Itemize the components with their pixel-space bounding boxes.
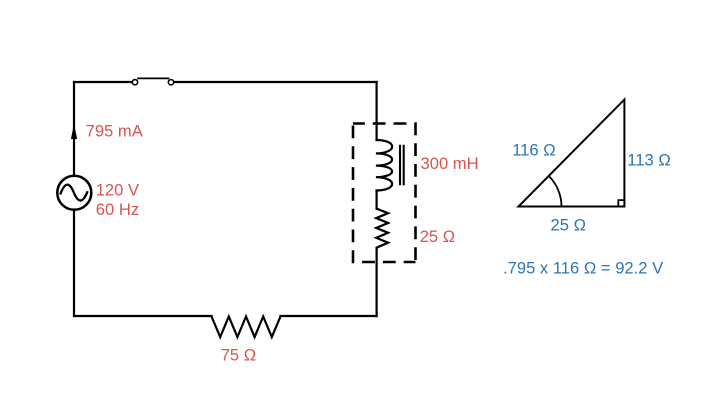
wire top-right segment bbox=[174, 81, 376, 83]
AC source V1 bbox=[57, 176, 91, 210]
svg-text:25 Ω: 25 Ω bbox=[551, 215, 586, 234]
wire left lower bbox=[73, 210, 75, 317]
svg-text:795 mA: 795 mA bbox=[86, 122, 144, 141]
svg-text:300 mH: 300 mH bbox=[421, 154, 479, 173]
right angle marker bbox=[618, 200, 624, 206]
resistor R1 25ohm bbox=[376, 209, 388, 248]
wire left upper bbox=[73, 82, 75, 176]
wire right middle bbox=[376, 191, 378, 209]
resistor R2 75ohm bbox=[212, 317, 281, 338]
inductor L1 300mH bbox=[376, 140, 392, 191]
wire right upper bbox=[376, 82, 378, 140]
wire right lower bbox=[376, 248, 378, 316]
dashed enclosure box bbox=[353, 124, 416, 263]
svg-text:75 Ω: 75 Ω bbox=[221, 346, 256, 365]
switch S1 bbox=[132, 78, 173, 84]
wire bottom-left segment bbox=[74, 315, 212, 317]
svg-text:60 Hz: 60 Hz bbox=[96, 200, 139, 219]
impedance triangle bbox=[519, 100, 625, 207]
wire bottom-right segment bbox=[281, 315, 377, 317]
svg-text:116 Ω: 116 Ω bbox=[512, 141, 555, 160]
svg-text:.795 x 116 Ω = 92.2 V: .795 x 116 Ω = 92.2 V bbox=[503, 259, 663, 278]
svg-text:25 Ω: 25 Ω bbox=[420, 227, 455, 246]
svg-text:120 V: 120 V bbox=[96, 180, 139, 199]
wire top-left segment bbox=[74, 81, 132, 83]
svg-text:113 Ω: 113 Ω bbox=[627, 151, 670, 170]
inductor core bars bbox=[400, 146, 404, 184]
angle arc bbox=[549, 176, 562, 207]
current arrow bbox=[71, 124, 77, 139]
